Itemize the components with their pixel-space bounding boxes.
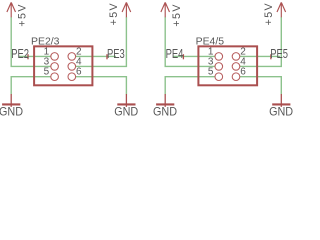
svg-text:+5V: +5V	[171, 4, 183, 27]
pin 3 pad	[51, 63, 59, 71]
svg-text:GND: GND	[0, 105, 23, 119]
pin 6 pad (JP2)	[232, 73, 240, 81]
net label origin tick PE5	[270, 54, 272, 59]
pin 1 pad	[51, 53, 59, 61]
svg-text:5: 5	[44, 67, 50, 78]
net label origin tick PE2	[27, 54, 29, 59]
ground GND1	[2, 94, 20, 107]
wire +5V column left to pin 3	[11, 17, 51, 67]
wire +5V column left to pin 3 (right half)	[165, 17, 215, 67]
svg-text:PE4: PE4	[166, 47, 184, 61]
svg-text:+5V: +5V	[263, 2, 275, 25]
supply +5V arrow P4	[277, 2, 286, 17]
svg-text:6: 6	[76, 67, 82, 78]
pin 2 pad (JP2)	[232, 53, 240, 61]
wire GND left from pin 5 (right half)	[165, 77, 215, 95]
svg-text:6: 6	[240, 67, 246, 78]
pin 4 pad (JP2)	[232, 63, 240, 71]
svg-text:PE2: PE2	[11, 47, 29, 61]
wire GND right from pin 6 (right half)	[240, 77, 282, 95]
ground GND3	[156, 94, 174, 107]
wire net PE5 stub from pin 2	[240, 55, 280, 57]
wire GND left from pin 5	[11, 77, 51, 95]
pin 2 pad	[68, 53, 76, 61]
svg-text:PE5: PE5	[270, 47, 288, 61]
wire net PE2 stub to pin 1	[19, 55, 51, 57]
ground GND2	[117, 94, 135, 107]
svg-text:GND: GND	[269, 105, 293, 119]
connector JP1 body (PINHD-2X3)	[34, 46, 92, 85]
ground GND4	[272, 94, 290, 107]
net label origin tick PE3	[106, 54, 108, 59]
supply +5V arrow P2	[122, 2, 131, 17]
wire net PE4 stub to pin 1	[174, 55, 216, 57]
pin 5 pad (JP2)	[215, 73, 223, 81]
wire GND right from pin 6	[76, 77, 127, 95]
pin 6 pad	[68, 73, 76, 81]
pin 5 pad	[51, 73, 59, 81]
wire net PE3 stub from pin 2	[76, 55, 116, 57]
connector JP2 body (PINHD-2X3)	[198, 46, 257, 85]
pin 3 pad (JP2)	[215, 63, 223, 71]
net label origin tick PE4	[182, 54, 184, 59]
supply +5V arrow P3	[161, 2, 170, 17]
supply +5V arrow P1	[7, 2, 16, 17]
svg-text:+5V: +5V	[108, 2, 120, 25]
svg-text:PE3: PE3	[107, 47, 125, 61]
svg-text:GND: GND	[114, 105, 138, 119]
svg-text:GND: GND	[153, 105, 177, 119]
svg-text:+5V: +5V	[16, 4, 28, 27]
wire +5V column right to pin 4 (right half)	[240, 17, 282, 67]
svg-text:5: 5	[208, 67, 214, 78]
wire +5V column right to pin 4	[76, 17, 127, 67]
pin 4 pad	[68, 63, 76, 71]
pin 1 pad (JP2)	[215, 53, 223, 61]
